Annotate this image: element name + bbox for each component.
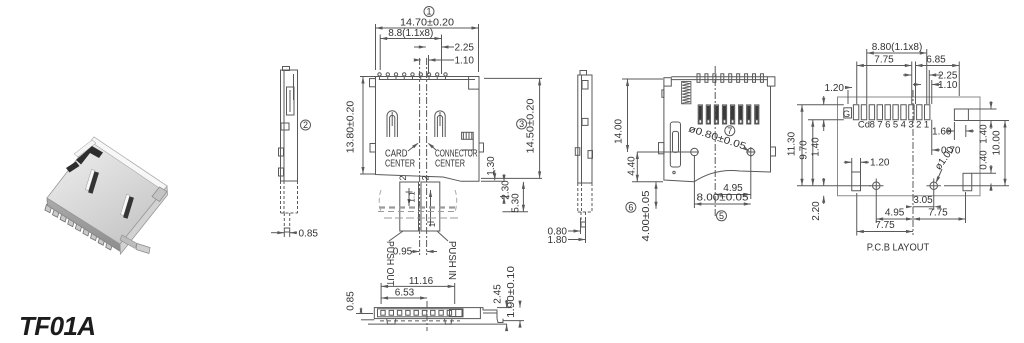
svg-text:2.45: 2.45 xyxy=(493,284,504,304)
svg-text:PUSH IN: PUSH IN xyxy=(446,241,457,280)
dim 6.53 xyxy=(381,288,427,300)
contact pins of view 5 xyxy=(698,105,759,124)
label push in xyxy=(437,231,457,280)
svg-text:3.05: 3.05 xyxy=(913,195,933,206)
svg-text:7: 7 xyxy=(877,120,882,131)
svg-text:2: 2 xyxy=(303,120,308,130)
svg-text:1.40: 1.40 xyxy=(979,124,990,144)
dim 8.8(1.1x8) xyxy=(380,28,441,74)
svg-text:11.16: 11.16 xyxy=(409,276,434,287)
svg-text:6: 6 xyxy=(885,120,890,131)
dim 1.10 pcb xyxy=(913,80,958,104)
svg-text:3: 3 xyxy=(519,119,524,129)
svg-text:2: 2 xyxy=(398,175,408,180)
push travel columns xyxy=(398,175,440,231)
dim 0.85 of view 2 xyxy=(271,228,318,239)
svg-text:1: 1 xyxy=(924,120,929,131)
balloon 7 xyxy=(725,126,735,136)
svg-text:13.80±0.20: 13.80±0.20 xyxy=(346,100,357,153)
svg-text:6.53: 6.53 xyxy=(395,288,415,299)
dim 2.25 pcb xyxy=(903,70,958,104)
dim 4.95 pcb xyxy=(876,193,913,223)
svg-text:7.75: 7.75 xyxy=(875,220,895,231)
svg-text:CENTER: CENTER xyxy=(435,159,465,170)
svg-text:4.95: 4.95 xyxy=(885,208,905,219)
svg-text:14.00: 14.00 xyxy=(614,118,625,143)
dim 0.95 xyxy=(393,247,437,258)
svg-text:5.30: 5.30 xyxy=(510,193,521,213)
dim 1.90±0.10 xyxy=(503,265,524,327)
dim 2.25 xyxy=(414,42,474,74)
svg-text:6: 6 xyxy=(628,202,633,212)
svg-text:11.30: 11.30 xyxy=(787,131,798,156)
spring coil xyxy=(682,82,691,104)
dim 0.80 of view 6 xyxy=(548,218,586,246)
svg-text:7.75: 7.75 xyxy=(928,208,948,219)
pad labels Cd8-1 xyxy=(858,120,929,131)
svg-text:8.00±0.05: 8.00±0.05 xyxy=(697,193,750,204)
front view center line xyxy=(426,301,428,331)
svg-text:2: 2 xyxy=(916,120,921,131)
view 5 body outline xyxy=(659,77,776,182)
svg-text:1.10: 1.10 xyxy=(938,80,958,91)
svg-text:2: 2 xyxy=(420,175,430,180)
card outline hidden lines xyxy=(378,190,458,218)
balloon 3 xyxy=(517,119,527,129)
svg-text:7.75: 7.75 xyxy=(874,55,894,66)
svg-text:2.25: 2.25 xyxy=(455,43,475,54)
dim 7.75 pcb top xyxy=(857,55,912,105)
svg-text:10.00: 10.00 xyxy=(992,130,1003,155)
dim phi 0.80±0.05 xyxy=(687,124,750,153)
svg-text:1.80: 1.80 xyxy=(548,235,568,246)
svg-text:1.30: 1.30 xyxy=(486,156,497,176)
dim 8.00±0.05 view5 xyxy=(694,155,750,208)
dim 3.05 pcb xyxy=(906,193,941,210)
svg-text:14.70±0.20: 14.70±0.20 xyxy=(400,18,454,29)
svg-text:Cd: Cd xyxy=(858,120,870,131)
3D isometric connector photo xyxy=(45,137,168,254)
label card center xyxy=(385,143,419,170)
dim 6.85 pcb xyxy=(916,55,960,105)
dim 7.75 pcb right-bottom xyxy=(913,192,966,223)
connector center line xyxy=(426,58,428,255)
svg-text:3: 3 xyxy=(908,120,913,131)
pcb center line xyxy=(912,90,914,235)
balloon 6 xyxy=(626,202,636,212)
dim 2.20 pcb xyxy=(811,178,825,221)
dim 1.40 pcb left xyxy=(811,96,826,157)
label push out xyxy=(384,231,403,286)
view 6 side profile xyxy=(575,71,592,228)
dim 9.70 pcb xyxy=(799,120,844,186)
svg-text:1.90±0.10: 1.90±0.10 xyxy=(506,265,517,318)
svg-text:G: G xyxy=(843,109,850,120)
front view body xyxy=(361,308,507,325)
dim 1.60 pcb xyxy=(932,122,974,140)
svg-text:5: 5 xyxy=(719,211,724,221)
svg-text:9.70: 9.70 xyxy=(799,140,810,160)
balloon 5 xyxy=(717,211,727,221)
view 5 center line xyxy=(714,66,716,216)
dim 4.95 view5 xyxy=(715,155,751,199)
dim 11.30 pcb xyxy=(787,105,872,186)
pcb bottom-left pad xyxy=(852,172,861,191)
teeth on view 5 top edge xyxy=(697,74,763,83)
svg-text:4.40: 4.40 xyxy=(627,156,638,176)
dim 5.30 xyxy=(502,182,528,213)
view 2 side profile xyxy=(279,67,298,233)
svg-text:0.85: 0.85 xyxy=(346,291,357,311)
dim 1.20 pcb top-left xyxy=(825,83,852,104)
view 2 balloon xyxy=(301,120,311,130)
svg-text:TF01A: TF01A xyxy=(19,311,95,341)
svg-text:1.20: 1.20 xyxy=(825,83,845,94)
dim 14.00 xyxy=(614,79,663,152)
svg-text:CENTER: CENTER xyxy=(385,159,415,170)
svg-text:8.8(1.1x8): 8.8(1.1x8) xyxy=(388,28,433,39)
dim 7.75 pcb bottom xyxy=(857,193,913,236)
svg-text:6.85: 6.85 xyxy=(926,55,946,66)
svg-text:1.60: 1.60 xyxy=(932,126,952,137)
svg-text:0.85: 0.85 xyxy=(299,228,319,239)
svg-text:2.20: 2.20 xyxy=(811,201,822,221)
dim 0.70 pcb xyxy=(932,120,961,157)
svg-text:1.10: 1.10 xyxy=(455,56,475,67)
card switch detail xyxy=(670,122,680,174)
dim 1.40 pcb right xyxy=(968,101,1009,144)
dim 13.80±0.20 xyxy=(346,77,376,175)
dim 0.85 front xyxy=(346,291,374,314)
svg-text:14.50±0.20: 14.50±0.20 xyxy=(526,98,537,153)
svg-text:7: 7 xyxy=(727,126,732,136)
svg-text:0.95: 0.95 xyxy=(393,247,413,258)
dim 0.40 pcb xyxy=(972,150,996,191)
svg-text:1.20: 1.20 xyxy=(870,158,890,169)
svg-text:P.C.B LAYOUT: P.C.B LAYOUT xyxy=(867,243,930,254)
svg-text:5: 5 xyxy=(893,120,898,131)
pcb holes xyxy=(869,179,941,194)
dim 10.00 pcb xyxy=(944,121,1009,186)
dim 2.45 xyxy=(493,284,512,331)
pcb signal pads xyxy=(853,105,930,120)
mounting pegs xyxy=(637,147,756,157)
dim 14.50±0.20 xyxy=(481,78,542,178)
dim 4.00±0.05 xyxy=(641,182,658,242)
card center line xyxy=(419,58,421,255)
dim 8.80(1.1x8) pcb xyxy=(867,42,927,104)
dim 1.30 xyxy=(481,156,502,181)
dim 2.30 xyxy=(500,174,512,204)
view 1 main top view body xyxy=(370,73,484,182)
dim phi 1.00 pcb xyxy=(933,145,957,184)
dim 11.16 xyxy=(381,276,455,304)
svg-text:1: 1 xyxy=(428,222,437,227)
svg-text:0.40: 0.40 xyxy=(979,150,990,170)
balloon 1 xyxy=(424,7,434,17)
svg-text:1.40: 1.40 xyxy=(811,137,822,157)
svg-text:8.80(1.1x8): 8.80(1.1x8) xyxy=(872,42,923,53)
label connector center xyxy=(428,143,478,170)
svg-text:1.1: 1.1 xyxy=(408,191,417,203)
svg-text:1: 1 xyxy=(426,7,431,17)
svg-text:8: 8 xyxy=(870,120,875,131)
dim 1.10 xyxy=(414,55,475,74)
dim 14.70±0.20 xyxy=(376,18,479,73)
pcb ground pad G xyxy=(843,108,852,120)
dim 1.20 pcb pad xyxy=(844,158,890,173)
svg-text:4: 4 xyxy=(901,120,906,131)
pcb outline xyxy=(838,97,981,196)
pcb right pads xyxy=(954,109,971,191)
dim 4.40 xyxy=(627,152,663,182)
svg-text:4.00±0.05: 4.00±0.05 xyxy=(641,190,652,241)
